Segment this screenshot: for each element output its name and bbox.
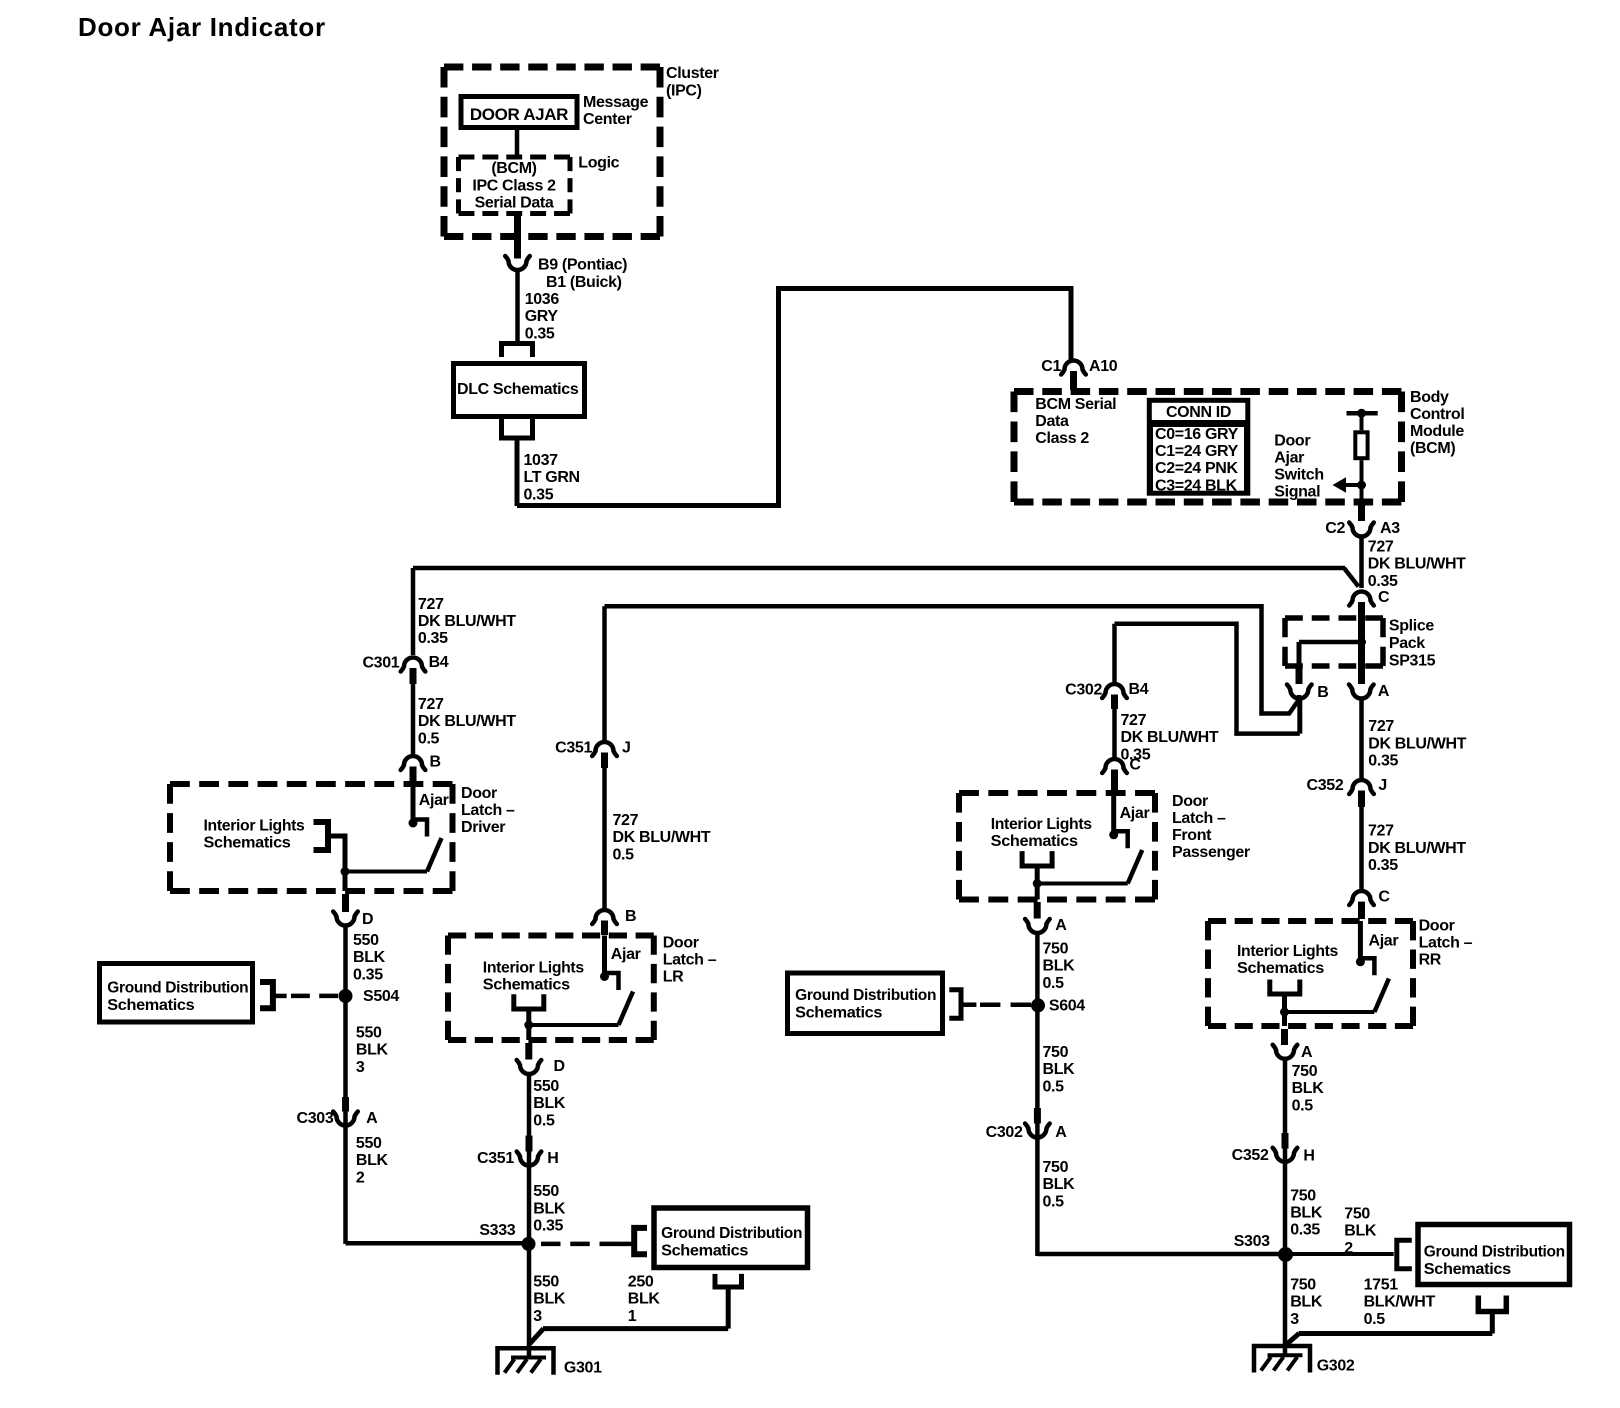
svg-text:Latch –: Latch – bbox=[461, 802, 515, 819]
svg-text:Pack: Pack bbox=[1389, 635, 1425, 652]
svg-text:B: B bbox=[1317, 684, 1328, 701]
svg-text:Splice: Splice bbox=[1389, 618, 1434, 635]
svg-text:0.5: 0.5 bbox=[418, 730, 440, 747]
svg-text:Schematics: Schematics bbox=[991, 833, 1078, 850]
svg-text:C303: C303 bbox=[297, 1110, 334, 1127]
svg-text:B: B bbox=[430, 754, 441, 771]
svg-text:LR: LR bbox=[663, 969, 684, 986]
svg-text:Passenger: Passenger bbox=[1172, 844, 1250, 861]
svg-text:Cluster: Cluster bbox=[666, 65, 719, 82]
svg-text:C2: C2 bbox=[1325, 520, 1345, 537]
svg-text:J: J bbox=[1378, 777, 1387, 794]
svg-text:0.35: 0.35 bbox=[1368, 857, 1398, 874]
svg-text:Interior Lights: Interior Lights bbox=[204, 818, 305, 835]
svg-text:BLK: BLK bbox=[1290, 1294, 1323, 1311]
svg-text:C351: C351 bbox=[555, 740, 592, 757]
svg-text:0.35: 0.35 bbox=[524, 486, 554, 503]
svg-text:BLK: BLK bbox=[353, 949, 386, 966]
svg-text:0.35: 0.35 bbox=[533, 1218, 563, 1235]
svg-text:C1=24 GRY: C1=24 GRY bbox=[1155, 443, 1239, 460]
svg-text:Signal: Signal bbox=[1274, 484, 1320, 501]
svg-text:550: 550 bbox=[533, 1183, 559, 1200]
svg-text:B4: B4 bbox=[1129, 681, 1149, 698]
svg-text:(BCM): (BCM) bbox=[491, 160, 536, 177]
svg-text:(BCM): (BCM) bbox=[1410, 440, 1455, 457]
svg-text:Door: Door bbox=[663, 935, 699, 952]
svg-text:727: 727 bbox=[418, 696, 444, 713]
svg-text:Ground Distribution: Ground Distribution bbox=[661, 1225, 802, 1242]
svg-text:DLC Schematics: DLC Schematics bbox=[457, 381, 579, 398]
svg-text:BLK: BLK bbox=[1043, 958, 1076, 975]
svg-text:GRY: GRY bbox=[525, 308, 559, 325]
svg-text:Class 2: Class 2 bbox=[1035, 430, 1089, 447]
svg-text:Ajar: Ajar bbox=[1274, 450, 1304, 467]
svg-text:BLK: BLK bbox=[628, 1291, 661, 1308]
svg-text:Door: Door bbox=[461, 785, 497, 802]
svg-text:DK BLU/WHT: DK BLU/WHT bbox=[1368, 840, 1466, 857]
svg-text:1: 1 bbox=[628, 1308, 637, 1325]
svg-text:S333: S333 bbox=[479, 1222, 515, 1239]
svg-text:727: 727 bbox=[1368, 823, 1394, 840]
svg-text:DK BLU/WHT: DK BLU/WHT bbox=[1368, 735, 1466, 752]
svg-text:0.35: 0.35 bbox=[525, 325, 555, 342]
svg-text:C3=24 BLK: C3=24 BLK bbox=[1155, 477, 1238, 494]
svg-text:C: C bbox=[1378, 889, 1390, 906]
svg-text:Door: Door bbox=[1274, 433, 1310, 450]
svg-text:Door: Door bbox=[1419, 918, 1455, 935]
svg-text:BLK: BLK bbox=[533, 1095, 566, 1112]
svg-text:IPC Class 2: IPC Class 2 bbox=[472, 177, 556, 194]
svg-text:Data: Data bbox=[1035, 413, 1069, 430]
svg-text:Ajar: Ajar bbox=[611, 946, 641, 963]
svg-text:727: 727 bbox=[1368, 539, 1394, 556]
svg-text:S604: S604 bbox=[1049, 998, 1085, 1015]
svg-text:BLK/WHT: BLK/WHT bbox=[1364, 1294, 1436, 1311]
svg-text:0.5: 0.5 bbox=[613, 846, 635, 863]
svg-text:Ground Distribution: Ground Distribution bbox=[1424, 1244, 1565, 1261]
svg-text:A: A bbox=[1055, 1124, 1067, 1141]
svg-text:727: 727 bbox=[1368, 718, 1394, 735]
svg-text:Message: Message bbox=[583, 94, 649, 111]
svg-text:750: 750 bbox=[1292, 1063, 1318, 1080]
svg-text:LT GRN: LT GRN bbox=[524, 469, 580, 486]
svg-text:DK BLU/WHT: DK BLU/WHT bbox=[418, 613, 516, 630]
svg-text:DK BLU/WHT: DK BLU/WHT bbox=[613, 829, 711, 846]
svg-text:Module: Module bbox=[1410, 423, 1464, 440]
svg-text:D: D bbox=[554, 1058, 565, 1075]
svg-text:C0=16 GRY: C0=16 GRY bbox=[1155, 426, 1239, 443]
svg-text:250: 250 bbox=[628, 1273, 654, 1290]
svg-text:DK BLU/WHT: DK BLU/WHT bbox=[1121, 729, 1219, 746]
svg-text:Driver: Driver bbox=[461, 819, 505, 836]
svg-text:Interior Lights: Interior Lights bbox=[483, 960, 584, 977]
svg-text:DK BLU/WHT: DK BLU/WHT bbox=[1368, 556, 1466, 573]
svg-text:Door: Door bbox=[1172, 793, 1208, 810]
svg-text:3: 3 bbox=[1290, 1311, 1299, 1328]
svg-text:0.5: 0.5 bbox=[1292, 1097, 1314, 1114]
svg-text:B1 (Buick): B1 (Buick) bbox=[546, 274, 622, 291]
svg-text:Body: Body bbox=[1410, 389, 1449, 406]
svg-text:BLK: BLK bbox=[533, 1200, 566, 1217]
svg-text:750: 750 bbox=[1290, 1276, 1316, 1293]
svg-text:727: 727 bbox=[613, 812, 639, 829]
svg-text:BLK: BLK bbox=[1292, 1080, 1325, 1097]
svg-text:D: D bbox=[362, 911, 373, 928]
svg-text:RR: RR bbox=[1419, 952, 1442, 969]
svg-text:750: 750 bbox=[1290, 1187, 1316, 1204]
svg-text:Switch: Switch bbox=[1274, 467, 1323, 484]
svg-text:BLK: BLK bbox=[1344, 1223, 1377, 1240]
svg-text:Schematics: Schematics bbox=[795, 1005, 882, 1022]
svg-text:0.5: 0.5 bbox=[1043, 1078, 1065, 1095]
svg-text:S303: S303 bbox=[1234, 1233, 1270, 1250]
svg-text:1037: 1037 bbox=[524, 452, 559, 469]
svg-text:C302: C302 bbox=[1065, 682, 1102, 699]
svg-text:Schematics: Schematics bbox=[661, 1243, 748, 1260]
svg-text:0.35: 0.35 bbox=[1368, 573, 1398, 590]
svg-text:C1: C1 bbox=[1041, 358, 1061, 375]
svg-text:S504: S504 bbox=[363, 988, 399, 1005]
svg-text:H: H bbox=[547, 1150, 558, 1167]
svg-text:0.5: 0.5 bbox=[1043, 1193, 1065, 1210]
svg-text:550: 550 bbox=[353, 932, 379, 949]
svg-text:1036: 1036 bbox=[525, 291, 560, 308]
svg-text:550: 550 bbox=[533, 1273, 559, 1290]
svg-text:0.5: 0.5 bbox=[1364, 1311, 1386, 1328]
svg-text:Serial Data: Serial Data bbox=[475, 195, 554, 212]
svg-text:BLK: BLK bbox=[356, 1042, 389, 1059]
svg-text:0.35: 0.35 bbox=[418, 630, 448, 647]
svg-text:Schematics: Schematics bbox=[483, 977, 570, 994]
svg-text:C: C bbox=[1129, 757, 1141, 774]
svg-text:2: 2 bbox=[356, 1169, 365, 1186]
svg-text:G302: G302 bbox=[1317, 1358, 1355, 1375]
svg-text:BCM Serial: BCM Serial bbox=[1035, 396, 1116, 413]
svg-text:C: C bbox=[1378, 589, 1390, 606]
svg-text:Latch –: Latch – bbox=[1172, 810, 1226, 827]
svg-text:Center: Center bbox=[583, 111, 632, 128]
svg-text:C2=24 PNK: C2=24 PNK bbox=[1155, 460, 1238, 477]
svg-text:C352: C352 bbox=[1307, 777, 1344, 794]
svg-text:B9 (Pontiac): B9 (Pontiac) bbox=[538, 257, 627, 274]
svg-text:DK BLU/WHT: DK BLU/WHT bbox=[418, 713, 516, 730]
svg-text:A: A bbox=[1378, 683, 1390, 700]
svg-text:3: 3 bbox=[533, 1308, 542, 1325]
svg-text:0.5: 0.5 bbox=[1043, 975, 1065, 992]
svg-text:0.35: 0.35 bbox=[353, 966, 383, 983]
svg-text:DOOR AJAR: DOOR AJAR bbox=[470, 105, 568, 124]
svg-text:0.35: 0.35 bbox=[1290, 1222, 1320, 1239]
svg-text:Latch –: Latch – bbox=[663, 952, 717, 969]
svg-text:Ajar: Ajar bbox=[419, 792, 449, 809]
svg-text:Interior Lights: Interior Lights bbox=[1237, 943, 1338, 960]
svg-text:CONN ID: CONN ID bbox=[1166, 404, 1231, 421]
svg-text:G301: G301 bbox=[564, 1360, 602, 1377]
svg-text:0.5: 0.5 bbox=[533, 1112, 555, 1129]
svg-text:0.35: 0.35 bbox=[1368, 753, 1398, 770]
svg-text:BLK: BLK bbox=[533, 1291, 566, 1308]
svg-text:SP315: SP315 bbox=[1389, 653, 1436, 670]
svg-text:BLK: BLK bbox=[1290, 1205, 1323, 1222]
svg-text:Schematics: Schematics bbox=[1237, 960, 1324, 977]
svg-text:(IPC): (IPC) bbox=[666, 83, 702, 100]
svg-text:Interior Lights: Interior Lights bbox=[991, 816, 1092, 833]
svg-text:BLK: BLK bbox=[1043, 1061, 1076, 1078]
svg-text:Door Ajar Indicator: Door Ajar Indicator bbox=[78, 12, 326, 42]
svg-text:550: 550 bbox=[356, 1135, 382, 1152]
svg-text:B: B bbox=[625, 908, 636, 925]
svg-text:750: 750 bbox=[1344, 1205, 1370, 1222]
svg-text:750: 750 bbox=[1043, 1159, 1069, 1176]
svg-text:3: 3 bbox=[356, 1059, 365, 1076]
svg-text:A: A bbox=[1055, 917, 1067, 934]
svg-text:Ground Distribution: Ground Distribution bbox=[107, 980, 248, 997]
svg-text:727: 727 bbox=[418, 596, 444, 613]
svg-text:750: 750 bbox=[1043, 941, 1069, 958]
svg-text:Front: Front bbox=[1172, 827, 1212, 844]
svg-text:Schematics: Schematics bbox=[204, 835, 291, 852]
svg-text:H: H bbox=[1303, 1148, 1314, 1165]
svg-text:A: A bbox=[366, 1110, 378, 1127]
svg-text:727: 727 bbox=[1121, 712, 1147, 729]
svg-text:Schematics: Schematics bbox=[1424, 1261, 1511, 1278]
svg-text:750: 750 bbox=[1043, 1044, 1069, 1061]
svg-text:B4: B4 bbox=[429, 654, 449, 671]
svg-text:550: 550 bbox=[533, 1078, 559, 1095]
svg-text:1751: 1751 bbox=[1364, 1276, 1399, 1293]
svg-text:BLK: BLK bbox=[1043, 1176, 1076, 1193]
svg-text:A10: A10 bbox=[1089, 358, 1118, 375]
svg-text:A: A bbox=[1301, 1044, 1313, 1061]
svg-text:C302: C302 bbox=[986, 1124, 1023, 1141]
svg-text:Control: Control bbox=[1410, 406, 1464, 423]
svg-text:550: 550 bbox=[356, 1024, 382, 1041]
svg-text:Ajar: Ajar bbox=[1120, 805, 1150, 822]
svg-text:Latch –: Latch – bbox=[1419, 935, 1473, 952]
svg-text:BLK: BLK bbox=[356, 1152, 389, 1169]
svg-text:Ajar: Ajar bbox=[1369, 933, 1399, 950]
svg-text:C351: C351 bbox=[477, 1150, 514, 1167]
svg-text:J: J bbox=[622, 740, 631, 757]
svg-text:Ground Distribution: Ground Distribution bbox=[795, 987, 936, 1004]
svg-text:C301: C301 bbox=[362, 655, 399, 672]
svg-text:A3: A3 bbox=[1380, 520, 1400, 537]
svg-text:Logic: Logic bbox=[578, 155, 619, 172]
svg-text:C352: C352 bbox=[1232, 1147, 1269, 1164]
svg-text:Schematics: Schematics bbox=[107, 997, 194, 1014]
